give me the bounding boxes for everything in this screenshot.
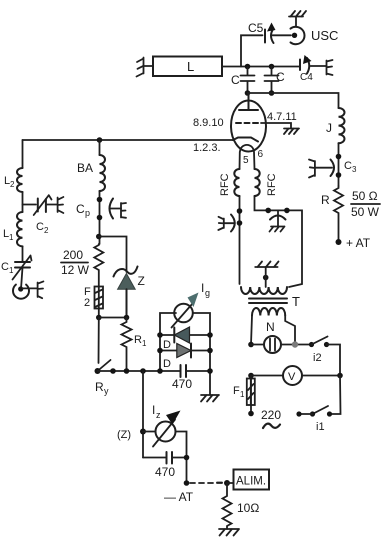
svg-text:BA: BA: [77, 161, 93, 175]
svg-text:+ AT: + AT: [346, 236, 371, 250]
svg-text:220: 220: [261, 408, 281, 422]
svg-text:470: 470: [155, 465, 175, 479]
svg-text:12 W: 12 W: [61, 263, 90, 277]
svg-text:470: 470: [172, 377, 192, 391]
svg-text:C: C: [276, 70, 285, 84]
svg-text:y: y: [104, 386, 109, 396]
svg-text:RFC: RFC: [219, 173, 231, 196]
svg-text:g: g: [205, 288, 210, 298]
svg-text:50 W: 50 W: [351, 205, 380, 219]
svg-text:C5: C5: [248, 21, 264, 35]
svg-text:50 Ω: 50 Ω: [352, 189, 378, 203]
svg-text:F: F: [233, 385, 240, 397]
svg-text:D: D: [163, 358, 171, 370]
svg-text:1: 1: [142, 339, 147, 348]
svg-text:6: 6: [258, 149, 264, 160]
svg-text:1: 1: [240, 390, 245, 399]
svg-text:1.2.3.: 1.2.3.: [193, 142, 221, 154]
svg-text:p: p: [85, 208, 90, 218]
svg-text:T: T: [292, 294, 300, 309]
svg-text:V: V: [288, 371, 296, 383]
svg-text:C: C: [1, 261, 9, 273]
svg-text:1: 1: [9, 266, 14, 275]
svg-text:R: R: [321, 193, 330, 207]
svg-text:i1: i1: [316, 421, 325, 433]
svg-text:I: I: [152, 403, 155, 417]
svg-text:R: R: [134, 334, 142, 346]
svg-text:i2: i2: [313, 352, 322, 364]
svg-text:Z: Z: [138, 274, 145, 288]
svg-text:2: 2: [44, 226, 49, 235]
svg-text:10Ω: 10Ω: [237, 501, 259, 515]
svg-text:C: C: [344, 160, 352, 172]
svg-text:z: z: [156, 410, 161, 420]
svg-text:RFC: RFC: [266, 173, 278, 196]
svg-text:1: 1: [9, 233, 14, 242]
svg-text:8.9.10: 8.9.10: [193, 117, 224, 129]
svg-text:C: C: [231, 73, 240, 87]
svg-text:D: D: [163, 339, 171, 351]
svg-text:N: N: [266, 320, 275, 334]
svg-text:C: C: [36, 221, 44, 233]
svg-text:L: L: [187, 59, 194, 74]
svg-text:2: 2: [84, 297, 90, 309]
svg-text:R: R: [95, 380, 104, 394]
svg-text:— AT: — AT: [164, 490, 194, 504]
svg-text:4.7.11: 4.7.11: [267, 111, 297, 123]
svg-text:3: 3: [352, 165, 357, 174]
svg-text:5: 5: [243, 155, 249, 166]
svg-text:C4: C4: [300, 72, 313, 83]
svg-text:200: 200: [63, 248, 83, 262]
svg-text:(Z): (Z): [117, 429, 131, 441]
svg-text:2: 2: [10, 180, 15, 189]
svg-text:C: C: [76, 202, 85, 216]
svg-text:I: I: [201, 281, 204, 295]
svg-text:J: J: [326, 121, 332, 135]
svg-text:USC: USC: [311, 28, 338, 43]
svg-text:ALIM.: ALIM.: [236, 476, 266, 488]
